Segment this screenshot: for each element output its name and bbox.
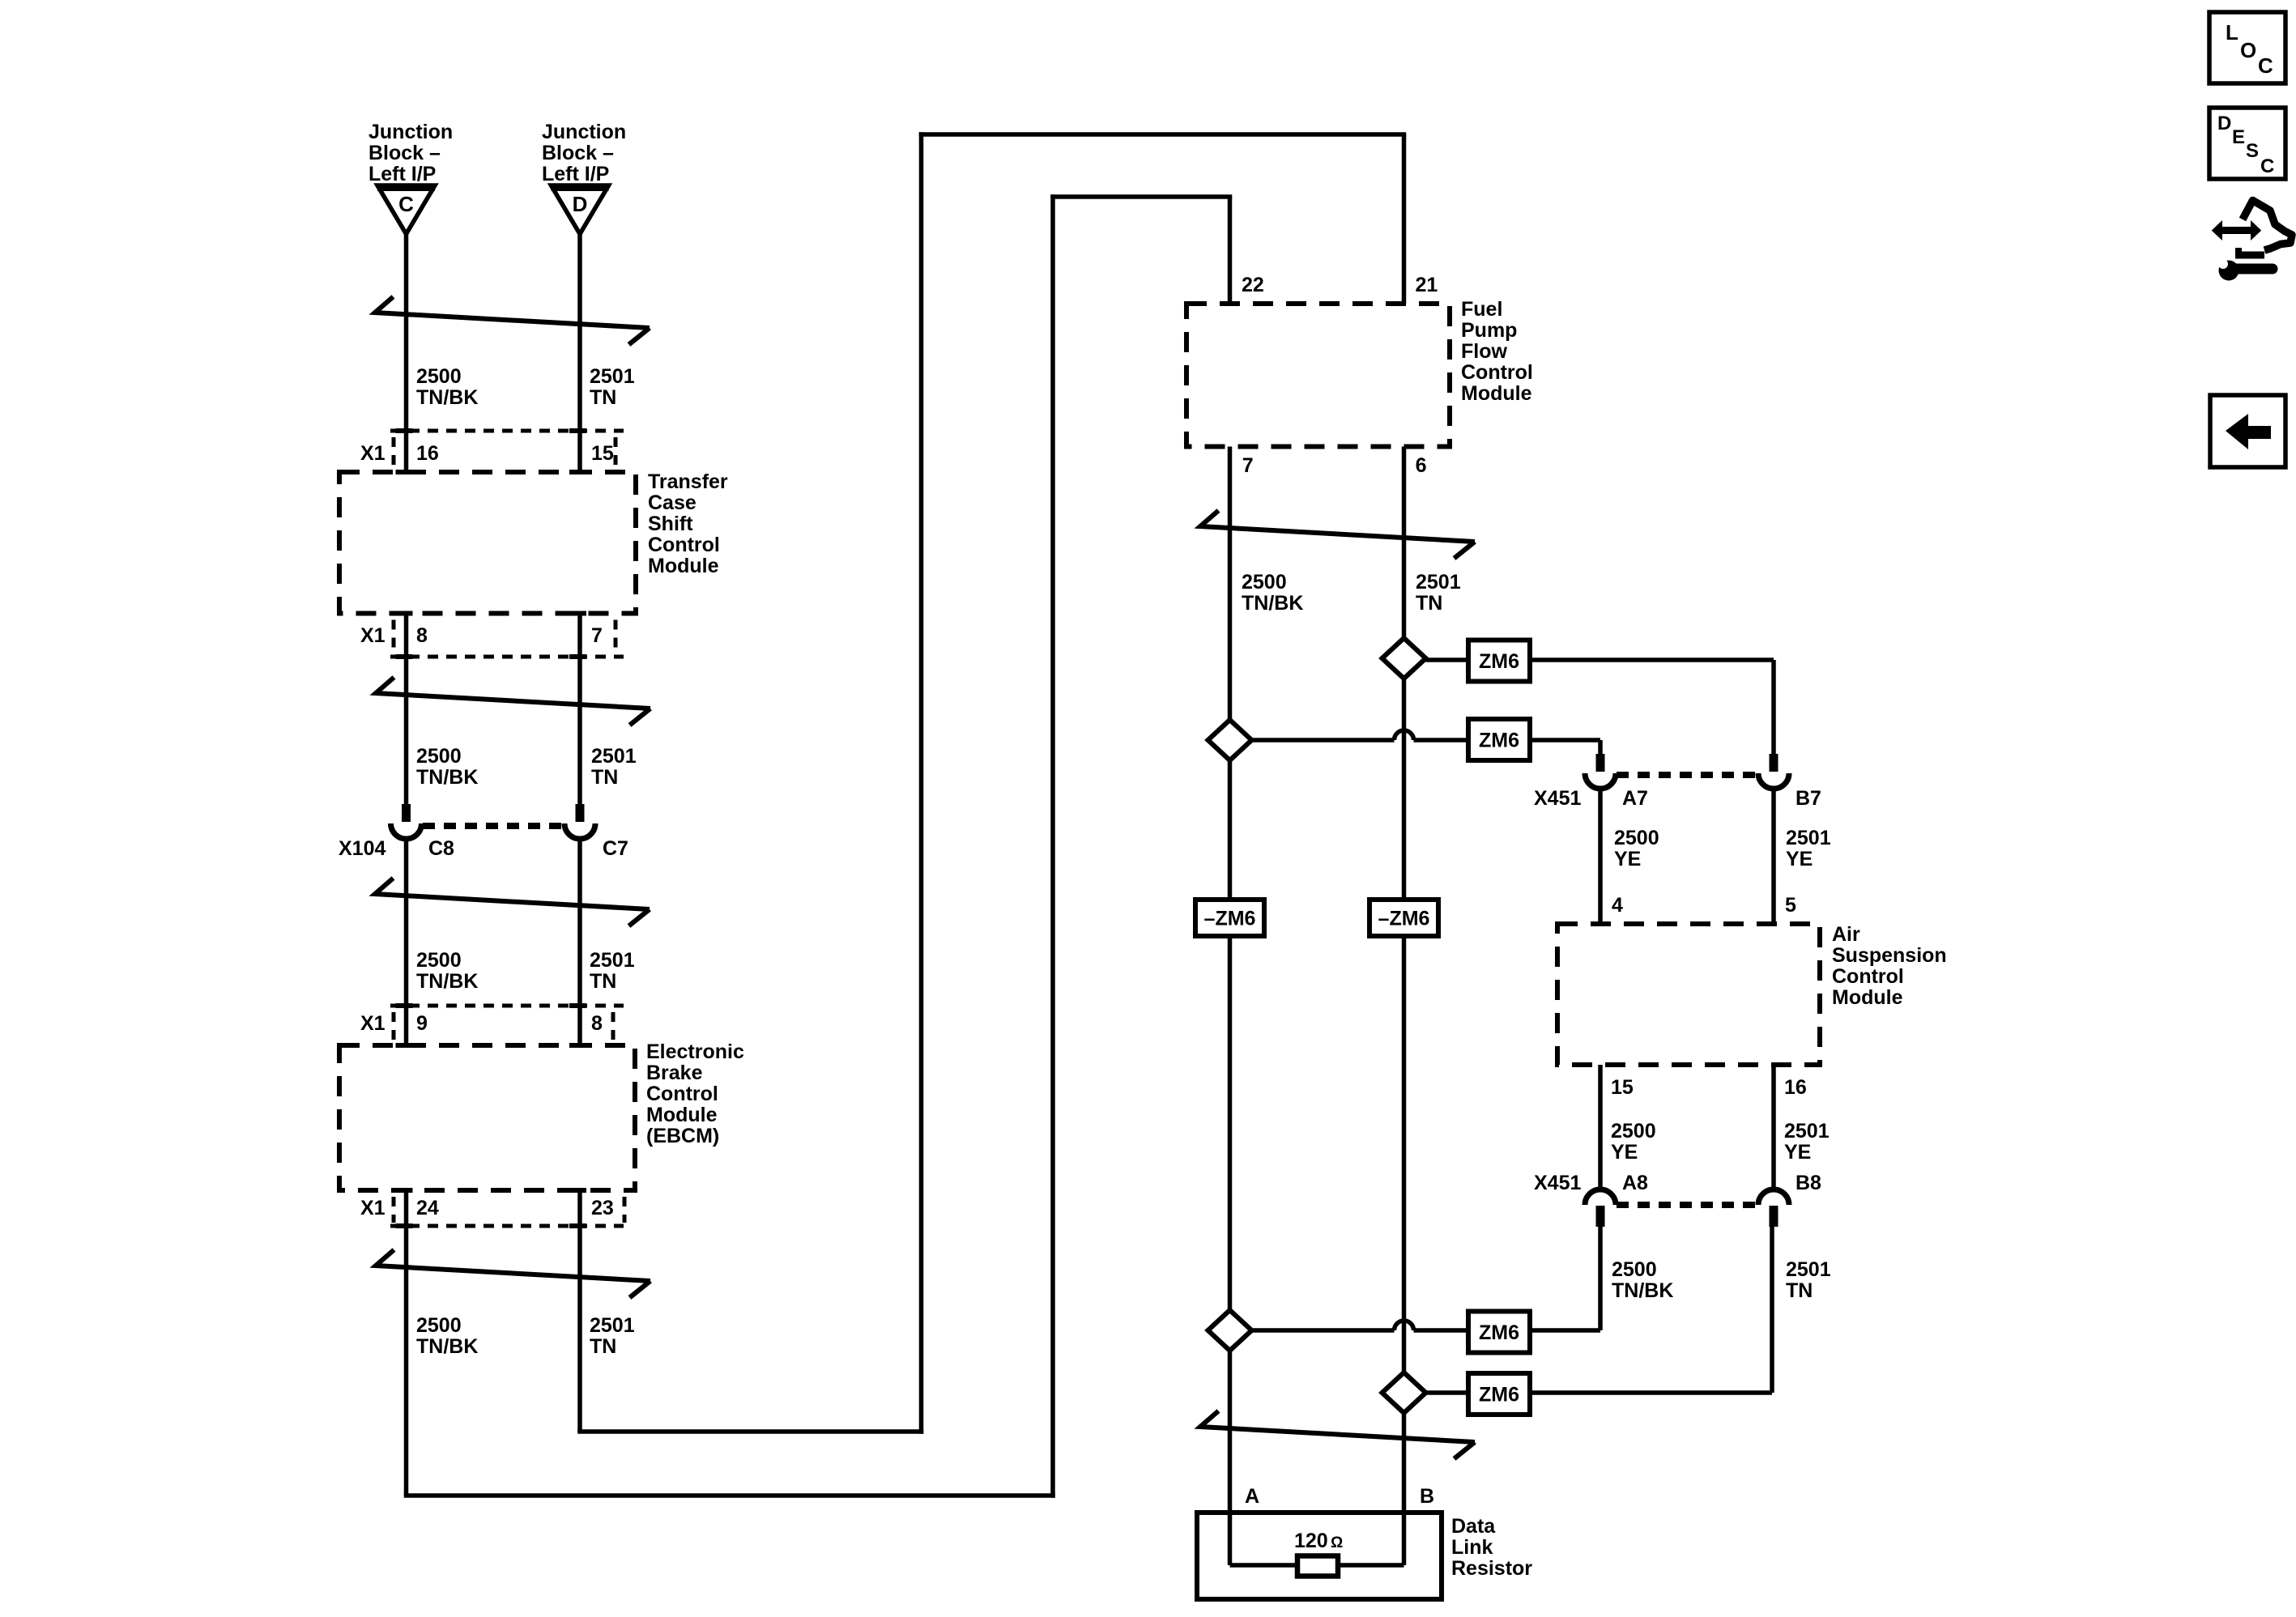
svg-text:C: C bbox=[398, 192, 414, 216]
svg-text:Control: Control bbox=[646, 1083, 718, 1105]
svg-text:ZM6: ZM6 bbox=[1479, 730, 1519, 752]
svg-text:16: 16 bbox=[416, 442, 439, 465]
svg-text:2501: 2501 bbox=[1784, 1120, 1830, 1143]
svg-text:Data: Data bbox=[1451, 1515, 1496, 1538]
svg-text:YE: YE bbox=[1786, 848, 1813, 870]
svg-text:15: 15 bbox=[591, 442, 614, 465]
svg-text:Module: Module bbox=[1461, 382, 1532, 405]
svg-text:Link: Link bbox=[1451, 1536, 1493, 1559]
svg-text:7: 7 bbox=[1242, 454, 1254, 477]
svg-text:X1: X1 bbox=[360, 1012, 386, 1035]
svg-text:C: C bbox=[2258, 53, 2273, 78]
svg-text:Junction: Junction bbox=[368, 121, 453, 143]
svg-text:TN/BK: TN/BK bbox=[1242, 592, 1303, 615]
svg-text:2500: 2500 bbox=[1614, 827, 1659, 849]
svg-text:TN/BK: TN/BK bbox=[416, 970, 478, 993]
svg-text:24: 24 bbox=[416, 1197, 439, 1219]
svg-text:X1: X1 bbox=[360, 1197, 386, 1219]
svg-text:C8: C8 bbox=[428, 837, 454, 860]
svg-text:Block –: Block – bbox=[368, 142, 441, 164]
svg-text:9: 9 bbox=[416, 1012, 428, 1035]
svg-text:4: 4 bbox=[1612, 894, 1623, 917]
svg-text:YE: YE bbox=[1784, 1141, 1811, 1164]
svg-text:C: C bbox=[2260, 155, 2274, 177]
svg-text:B8: B8 bbox=[1795, 1172, 1821, 1194]
svg-text:Suspension: Suspension bbox=[1832, 944, 1947, 967]
svg-text:Resistor: Resistor bbox=[1451, 1557, 1532, 1580]
svg-text:TN: TN bbox=[1416, 592, 1442, 615]
svg-text:X1: X1 bbox=[360, 624, 386, 647]
svg-text:(EBCM): (EBCM) bbox=[646, 1125, 719, 1147]
svg-text:Electronic: Electronic bbox=[646, 1040, 744, 1063]
svg-text:Left I/P: Left I/P bbox=[368, 163, 436, 185]
svg-text:Ω: Ω bbox=[1331, 1534, 1343, 1551]
svg-text:7: 7 bbox=[591, 624, 603, 647]
svg-text:Shift: Shift bbox=[648, 513, 693, 535]
svg-text:TN/BK: TN/BK bbox=[416, 766, 478, 789]
svg-text:Module: Module bbox=[648, 555, 719, 577]
svg-text:TN: TN bbox=[590, 386, 616, 409]
svg-text:YE: YE bbox=[1611, 1141, 1638, 1164]
svg-text:X104: X104 bbox=[339, 837, 386, 860]
svg-text:22: 22 bbox=[1242, 274, 1264, 296]
svg-text:6: 6 bbox=[1416, 454, 1427, 477]
svg-text:23: 23 bbox=[591, 1197, 614, 1219]
svg-text:A: A bbox=[1245, 1485, 1259, 1508]
svg-text:2500: 2500 bbox=[1242, 571, 1287, 594]
svg-text:Brake: Brake bbox=[646, 1062, 703, 1084]
svg-text:2501: 2501 bbox=[1786, 827, 1831, 849]
svg-text:TN: TN bbox=[591, 766, 618, 789]
svg-text:X1: X1 bbox=[360, 442, 386, 465]
svg-text:Fuel: Fuel bbox=[1461, 298, 1502, 321]
svg-text:Block –: Block – bbox=[542, 142, 614, 164]
svg-text:120: 120 bbox=[1294, 1530, 1328, 1552]
svg-text:Case: Case bbox=[648, 491, 696, 514]
svg-text:D: D bbox=[573, 192, 588, 216]
svg-text:X451: X451 bbox=[1534, 787, 1581, 810]
svg-text:2500: 2500 bbox=[416, 745, 462, 768]
svg-text:Air: Air bbox=[1832, 923, 1860, 946]
svg-text:L: L bbox=[2226, 20, 2238, 45]
svg-text:TN: TN bbox=[1786, 1279, 1813, 1302]
svg-text:S: S bbox=[2246, 140, 2259, 162]
svg-text:B: B bbox=[1420, 1485, 1434, 1508]
svg-text:8: 8 bbox=[591, 1012, 603, 1035]
svg-text:TN/BK: TN/BK bbox=[1612, 1279, 1673, 1302]
svg-text:2501: 2501 bbox=[591, 745, 637, 768]
svg-text:2501: 2501 bbox=[1416, 571, 1461, 594]
svg-text:Flow: Flow bbox=[1461, 340, 1507, 363]
svg-text:YE: YE bbox=[1614, 848, 1641, 870]
svg-text:2500: 2500 bbox=[1611, 1120, 1656, 1143]
svg-text:2501: 2501 bbox=[590, 949, 635, 972]
svg-text:TN: TN bbox=[590, 1335, 616, 1358]
svg-text:Left I/P: Left I/P bbox=[542, 163, 609, 185]
svg-text:Pump: Pump bbox=[1461, 319, 1517, 342]
svg-text:2500: 2500 bbox=[416, 949, 462, 972]
svg-text:TN/BK: TN/BK bbox=[416, 1335, 478, 1358]
svg-text:Module: Module bbox=[646, 1104, 718, 1126]
svg-text:2501: 2501 bbox=[1786, 1258, 1831, 1281]
svg-text:A8: A8 bbox=[1622, 1172, 1648, 1194]
svg-text:C7: C7 bbox=[603, 837, 628, 860]
svg-text:Control: Control bbox=[648, 534, 720, 556]
svg-text:ZM6: ZM6 bbox=[1479, 1384, 1519, 1406]
svg-text:TN/BK: TN/BK bbox=[416, 386, 478, 409]
svg-text:ZM6: ZM6 bbox=[1479, 1321, 1519, 1344]
svg-text:16: 16 bbox=[1784, 1076, 1807, 1099]
svg-text:Module: Module bbox=[1832, 986, 1903, 1009]
svg-text:Control: Control bbox=[1461, 361, 1533, 384]
svg-text:E: E bbox=[2232, 126, 2245, 148]
svg-text:5: 5 bbox=[1785, 894, 1796, 917]
svg-text:Control: Control bbox=[1832, 965, 1904, 988]
svg-text:21: 21 bbox=[1416, 274, 1438, 296]
svg-text:X451: X451 bbox=[1534, 1172, 1581, 1194]
svg-text:B7: B7 bbox=[1795, 787, 1821, 810]
svg-text:–ZM6: –ZM6 bbox=[1378, 908, 1430, 930]
svg-text:2500: 2500 bbox=[416, 1314, 462, 1337]
svg-text:ZM6: ZM6 bbox=[1479, 650, 1519, 673]
svg-text:2500: 2500 bbox=[1612, 1258, 1657, 1281]
svg-text:2500: 2500 bbox=[416, 365, 462, 388]
svg-text:2501: 2501 bbox=[590, 1314, 635, 1337]
svg-text:15: 15 bbox=[1611, 1076, 1634, 1099]
svg-text:A7: A7 bbox=[1622, 787, 1648, 810]
svg-text:–ZM6: –ZM6 bbox=[1204, 908, 1256, 930]
svg-text:Junction: Junction bbox=[542, 121, 626, 143]
svg-text:Transfer: Transfer bbox=[648, 470, 728, 493]
svg-text:O: O bbox=[2240, 38, 2256, 62]
svg-text:8: 8 bbox=[416, 624, 428, 647]
svg-text:2501: 2501 bbox=[590, 365, 635, 388]
svg-text:D: D bbox=[2217, 113, 2231, 134]
svg-text:TN: TN bbox=[590, 970, 616, 993]
